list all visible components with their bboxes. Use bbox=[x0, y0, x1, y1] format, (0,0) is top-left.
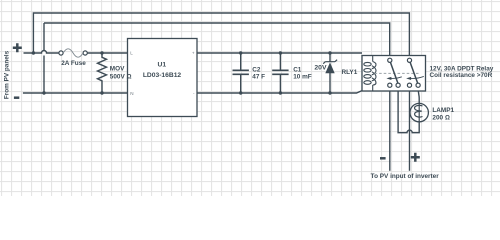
svg-text:From PV panels: From PV panels bbox=[4, 50, 11, 99]
svg-text:LAMP1: LAMP1 bbox=[432, 107, 454, 114]
svg-text:10 mF: 10 mF bbox=[293, 74, 312, 81]
svg-text:MOV: MOV bbox=[110, 65, 125, 72]
svg-text:20V: 20V bbox=[314, 65, 327, 72]
svg-text:L: L bbox=[130, 51, 133, 56]
svg-text:200 Ω: 200 Ω bbox=[432, 115, 449, 122]
svg-text:U1: U1 bbox=[158, 62, 167, 69]
svg-text:LD03-16B12: LD03-16B12 bbox=[143, 72, 182, 79]
svg-text:47 F: 47 F bbox=[252, 74, 265, 81]
svg-text:RLY1: RLY1 bbox=[342, 69, 358, 76]
svg-text:N: N bbox=[130, 91, 133, 96]
svg-text:Coil resistance >70R: Coil resistance >70R bbox=[430, 72, 493, 79]
svg-text:500V Ω: 500V Ω bbox=[110, 73, 132, 80]
svg-text:+: + bbox=[192, 51, 195, 56]
svg-text:2A Fuse: 2A Fuse bbox=[61, 60, 86, 67]
svg-text:To PV input of inverter: To PV input of inverter bbox=[371, 173, 440, 180]
